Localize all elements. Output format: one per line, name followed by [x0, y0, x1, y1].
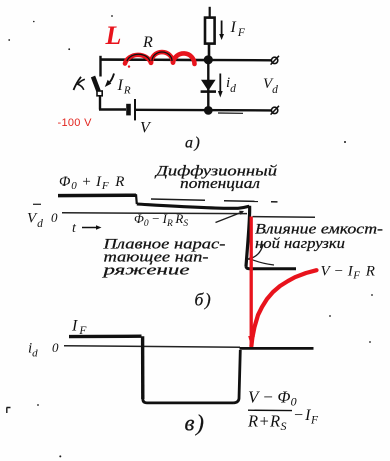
red speck under coil	[128, 65, 130, 67]
svg-text:− IF: − IF	[293, 407, 319, 427]
svg-text:ной нагрузки: ной нагрузки	[255, 236, 345, 252]
switch K blade	[93, 77, 99, 92]
waveform v: I_F level	[69, 335, 142, 339]
wire: bottom rail from battery to right terminal	[136, 109, 272, 112]
label i_d axis	[28, 341, 38, 360]
label smoothly rising voltage (3 lines)	[102, 237, 226, 279]
waveform v: rise back up	[234, 350, 241, 403]
wire: diode branch vertical	[207, 60, 209, 111]
axis 0-line (v), thin	[64, 346, 240, 347]
svg-text:Φ0 − IR RS: Φ0 − IR RS	[134, 211, 188, 229]
arrow I_R (curved current arrow at switch)	[105, 74, 114, 88]
wire: current source to top rail node	[208, 44, 211, 60]
red recovery curve to V-IFR level	[251, 270, 316, 346]
label t with arrow	[72, 221, 102, 236]
wire: below switch down to bottom rail	[99, 96, 101, 110]
svg-text:0: 0	[52, 340, 59, 355]
svg-text:IF: IF	[71, 318, 87, 338]
switch K bottom contact (open square)	[97, 91, 102, 96]
svg-text:0: 0	[51, 210, 58, 225]
label Phi0 + IF R	[59, 174, 125, 192]
terminal bottom right (circle with slash)	[271, 106, 279, 115]
wire: left vertical from top-left corner down to switch	[99, 56, 101, 77]
svg-text:id: id	[226, 75, 236, 95]
svg-text:-100 V: -100 V	[58, 117, 93, 129]
label V (battery)	[140, 120, 152, 137]
label Diffusion potential (2 lines)	[153, 164, 277, 192]
leader line from 'smoothly rising' text to curve	[216, 211, 245, 223]
node dot top (junction of coil, source, diode)	[204, 55, 213, 64]
battery V positive plate (long thin)	[134, 99, 136, 120]
axis 0-line (b), thin	[62, 212, 247, 215]
svg-text:б): б)	[195, 290, 213, 310]
svg-text:V − IF R: V − IF R	[321, 264, 376, 282]
svg-text:R: R	[142, 34, 153, 51]
svg-text:Vd: Vd	[263, 76, 278, 96]
current source I_F rectangle	[205, 18, 215, 44]
waveform b: small step down	[135, 194, 138, 204]
label influence of capacitive load (2 lines)	[255, 222, 383, 253]
svg-text:id: id	[28, 341, 38, 360]
svg-text:V − Φ0: V − Φ0	[248, 388, 297, 409]
label 0 (axis origin v)	[52, 340, 59, 355]
label i_d	[226, 75, 236, 95]
svg-text:ряжение: ряжение	[102, 263, 191, 279]
label I_F (level label)	[71, 318, 87, 338]
wire: top rail of circuit	[101, 58, 272, 61]
svg-text:Φ0 + IF R: Φ0 + IF R	[59, 174, 125, 192]
svg-text:IF: IF	[230, 19, 246, 39]
black under-drawing of coil	[127, 52, 172, 61]
waveform v: drop to negative	[141, 336, 145, 399]
svg-text:IR: IR	[117, 77, 131, 97]
svg-text:Vd: Vd	[27, 211, 43, 231]
fraction (V-Phi0)/(R+RS) - IF	[247, 388, 319, 434]
waveform v: final level on axis	[240, 347, 314, 350]
axis continuation right of drop (thin)	[253, 216, 316, 219]
svg-text:в): в)	[185, 411, 206, 436]
arrow I_F (direction arrow)	[219, 21, 224, 41]
battery V negative plate (short thick)	[126, 104, 131, 116]
red arrow tip at bottom of transient	[248, 336, 255, 348]
label -100 V (red)	[58, 117, 93, 129]
svg-text:а): а)	[185, 135, 201, 152]
label v) (part label)	[185, 411, 206, 436]
red vertical transient line	[250, 217, 253, 345]
label V_d (output voltage)	[263, 76, 278, 96]
svg-text:R+RS: R+RS	[247, 412, 287, 434]
label I_F	[230, 19, 246, 39]
label 0 (axis origin b)	[51, 210, 58, 225]
stray dash left of waveform start	[33, 203, 41, 205]
svg-text:t: t	[72, 221, 77, 236]
wire: black line under inductor	[100, 59, 207, 62]
scan artifact: double line on bottom rail	[218, 112, 243, 114]
diode D (cathode down)	[201, 80, 216, 91]
wire: bottom rail left segment to battery	[99, 108, 126, 110]
waveform b: slowly changing level Phi0-IRRS with slight sag and overshoot	[137, 204, 250, 208]
inductor L coil (red)	[125, 52, 195, 64]
label b) (part label)	[195, 290, 213, 310]
label K	[74, 77, 85, 90]
svg-text:V: V	[140, 120, 152, 137]
node dot bottom	[204, 106, 213, 115]
arrow i_d (diode current arrow)	[218, 74, 223, 98]
label I_R	[117, 77, 131, 97]
label R (resistor, above coil)	[142, 34, 153, 51]
underline under title (broken segments)	[151, 199, 278, 202]
svg-text:L: L	[105, 21, 122, 50]
waveform b: top level Phi0+IFR	[58, 193, 136, 197]
label Phi0 - IR RS	[134, 211, 188, 229]
svg-text:потенциал: потенциал	[180, 176, 260, 192]
waveform b: steep drop	[246, 206, 250, 267]
label a) (part label)	[185, 135, 201, 152]
label V_d axis	[27, 211, 43, 231]
waveform b: bottom level (black) to V-IFR	[246, 267, 296, 269]
waveform v: negative bottom level	[143, 399, 234, 403]
wire: stub above current source	[209, 7, 211, 18]
label L (red)	[105, 21, 122, 50]
leader with arrow from capacitive-load label to corner	[247, 244, 275, 265]
label V - IF R	[321, 264, 376, 282]
terminal top right (circle with slash)	[271, 56, 279, 65]
